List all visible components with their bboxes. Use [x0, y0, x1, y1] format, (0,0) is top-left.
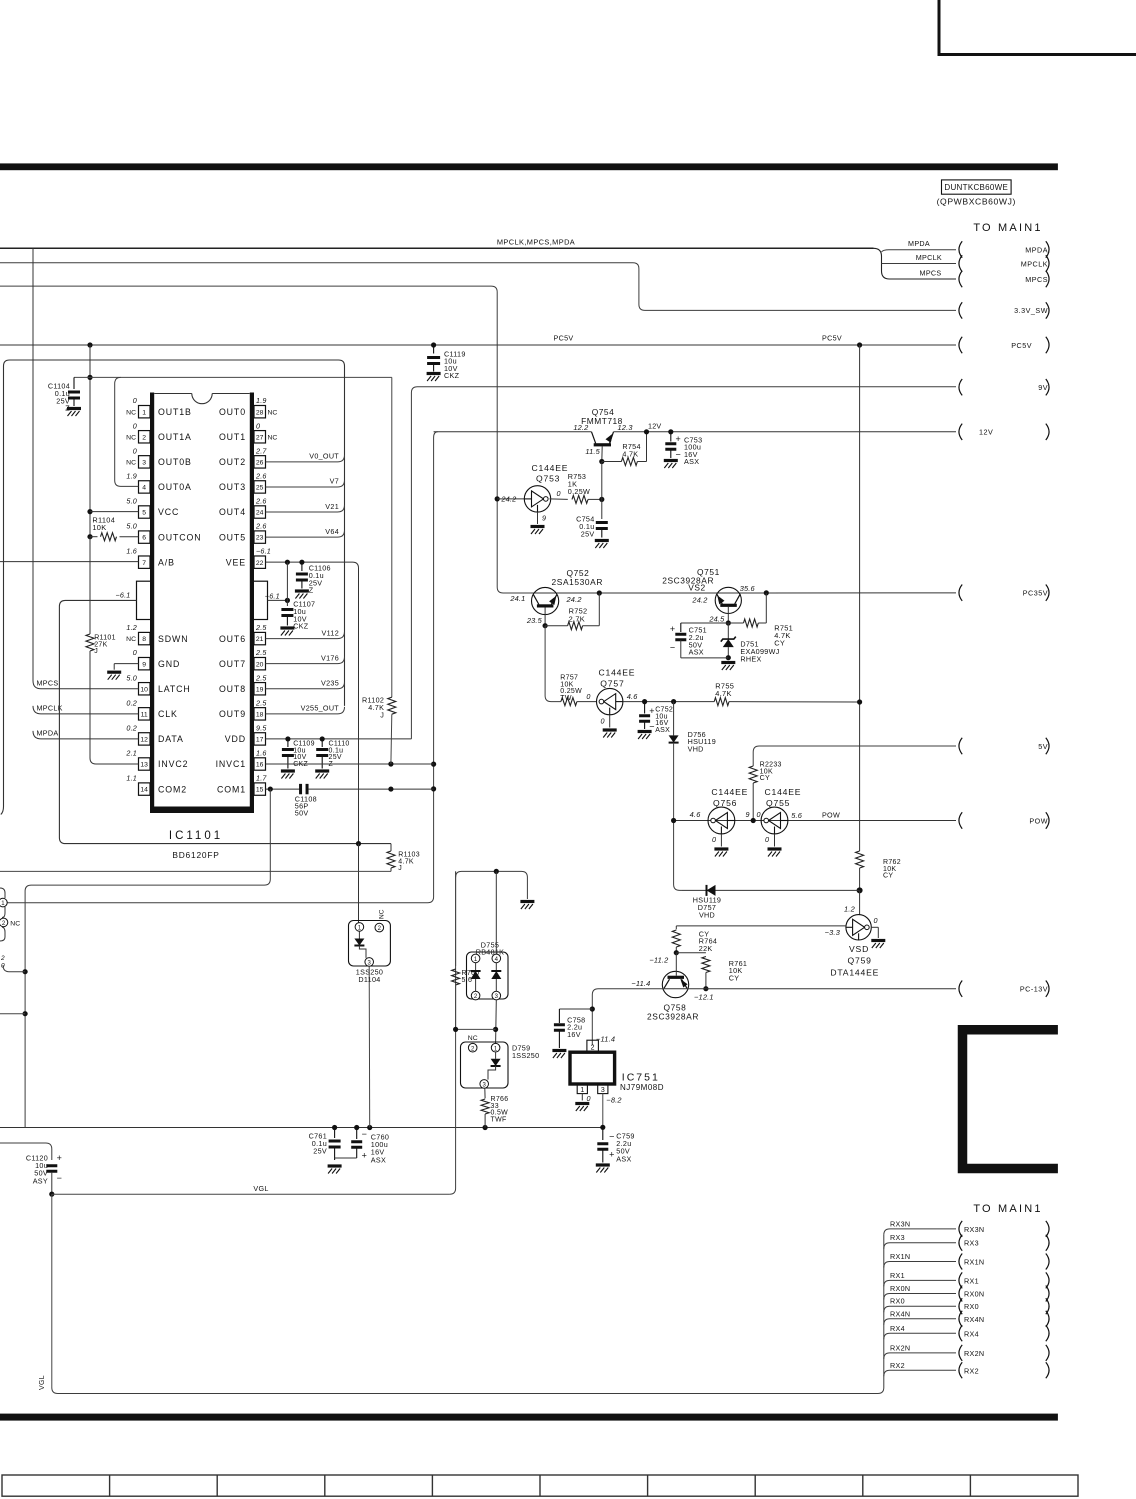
connector RX0 [959, 1298, 962, 1314]
junction C1104 top link [87, 375, 92, 380]
svg-text:RX2: RX2 [964, 1366, 979, 1375]
svg-text:OUTCON: OUTCON [158, 532, 202, 542]
svg-text:V235: V235 [321, 679, 339, 688]
svg-text:0.25W: 0.25W [568, 487, 590, 496]
frame corner box top-right [939, 0, 1136, 55]
label DUNTKCB60WE [942, 180, 1012, 194]
svg-text:IC1101: IC1101 [169, 830, 223, 842]
pin 22 VEE [254, 556, 266, 568]
svg-text:8: 8 [142, 636, 146, 643]
ground Q753 [531, 527, 545, 535]
svg-text:23: 23 [256, 535, 264, 542]
svg-text:2.7: 2.7 [255, 446, 267, 455]
svg-text:1: 1 [142, 409, 146, 416]
pin 6 OUTCON [139, 531, 151, 543]
svg-text:4.6: 4.6 [627, 692, 639, 701]
resistor R752 2.7K [598, 593, 600, 626]
svg-text:−: − [670, 643, 676, 653]
svg-text:GND: GND [158, 659, 180, 669]
svg-text:−6.1: −6.1 [116, 591, 131, 600]
svg-text:Q756: Q756 [713, 798, 737, 808]
capacitor C1120 10u [0, 1143, 52, 1160]
svg-text:6: 6 [142, 535, 146, 542]
pin 7 A/B [139, 556, 151, 568]
svg-text:VEE: VEE [226, 557, 246, 567]
svg-text:9: 9 [142, 661, 146, 668]
svg-text:0: 0 [712, 835, 716, 844]
wire V112 [266, 632, 345, 639]
svg-text:+: + [362, 1151, 368, 1161]
connector MPDA [959, 241, 962, 257]
svg-text:NC: NC [126, 434, 136, 441]
junction R752 left [543, 623, 548, 628]
pin 24 OUT4 [254, 506, 266, 518]
svg-text:OUT0B: OUT0B [158, 457, 192, 467]
svg-text:MPDA: MPDA [1025, 245, 1048, 254]
svg-text:CY: CY [760, 775, 770, 782]
resistor R753 1K [550, 498, 568, 501]
svg-text:INVC2: INVC2 [158, 759, 188, 769]
junction C758 node [590, 1006, 595, 1011]
svg-text:4: 4 [142, 485, 146, 492]
transistor Q757 C144EE [597, 688, 623, 714]
wire PC5V rail [0, 344, 956, 346]
svg-text:SDWN: SDWN [158, 634, 188, 644]
svg-text:2.5: 2.5 [255, 648, 267, 657]
junction VEE C1107 column [285, 560, 290, 565]
connector RX1 [959, 1272, 962, 1288]
svg-text:Q757: Q757 [600, 679, 624, 689]
svg-text:3.3V_SW: 3.3V_SW [1014, 306, 1048, 315]
resistor R754 4.7K [602, 461, 622, 463]
svg-text:VGL: VGL [253, 1184, 268, 1193]
svg-text:RX1N: RX1N [890, 1252, 910, 1261]
svg-text:RX0N: RX0N [890, 1284, 910, 1293]
junction R754 node [599, 459, 604, 464]
transistor Q753 C144EE [524, 486, 550, 512]
svg-text:VS2: VS2 [688, 583, 706, 593]
svg-text:OUT5: OUT5 [219, 532, 246, 542]
wire VEE pin22 net [266, 562, 359, 922]
connector RX3 [959, 1235, 962, 1251]
pin 14 COM2 [139, 783, 151, 795]
thick separator bar top [0, 163, 1058, 170]
wire COM1 pin15 net [266, 788, 300, 790]
svg-text:MPCS: MPCS [37, 678, 59, 687]
svg-text:(QPWBXCB60WJ): (QPWBXCB60WJ) [937, 197, 1016, 207]
svg-text:0.2: 0.2 [126, 698, 137, 707]
pin 12 DATA [139, 733, 151, 745]
svg-text:V64: V64 [325, 527, 339, 536]
svg-text:24: 24 [256, 510, 264, 517]
svg-text:2: 2 [142, 434, 146, 441]
junction INVC1 on 12V vertical [431, 762, 436, 767]
svg-text:0: 0 [765, 835, 769, 844]
ground Q757 [603, 730, 617, 738]
wire IC751 pin3 down [602, 1094, 604, 1128]
svg-text:BD6120FP: BD6120FP [172, 850, 219, 860]
svg-text:PC35V: PC35V [1023, 589, 1048, 598]
svg-text:VDD: VDD [225, 734, 246, 744]
ground y868 link [520, 902, 534, 910]
svg-text:OUT4: OUT4 [219, 507, 246, 517]
connector PC-13V [959, 981, 962, 997]
svg-text:POW: POW [1029, 816, 1048, 825]
svg-text:RX0: RX0 [964, 1302, 979, 1311]
svg-text:OUT1: OUT1 [219, 432, 246, 442]
svg-text:V21: V21 [325, 502, 339, 511]
wire D755 to D759 [495, 871, 497, 954]
junction long line C759 [600, 1125, 605, 1130]
svg-text:TO MAIN1: TO MAIN1 [973, 222, 1042, 234]
svg-text:25V: 25V [581, 530, 595, 539]
junction C1109 [285, 736, 290, 741]
wire C1104/VCC vertical [89, 345, 91, 537]
junction D756 line POW [671, 818, 676, 823]
junction COM1 left [268, 786, 273, 791]
wire Q752 emitter to Q757 line [545, 626, 561, 702]
capacitor C760 100u [356, 1128, 358, 1140]
svg-text:4.7K: 4.7K [622, 449, 638, 458]
svg-text:TO MAIN1: TO MAIN1 [973, 1203, 1042, 1215]
svg-text:0: 0 [587, 1094, 591, 1103]
wire VCC pin5 [90, 511, 139, 513]
svg-text:1.9: 1.9 [256, 396, 267, 405]
svg-text:V7: V7 [330, 477, 339, 486]
svg-text:RX2N: RX2N [890, 1343, 910, 1352]
svg-text:15: 15 [256, 787, 264, 794]
svg-text:0: 0 [256, 421, 260, 430]
svg-text:V112: V112 [322, 628, 339, 637]
svg-text:24.1: 24.1 [509, 594, 525, 603]
svg-text:VSD: VSD [849, 944, 869, 954]
svg-text:50V: 50V [295, 809, 309, 818]
svg-text:21: 21 [256, 636, 264, 643]
svg-text:16V: 16V [567, 1030, 581, 1039]
svg-text:VCC: VCC [158, 507, 179, 517]
ground Q755 [768, 849, 782, 857]
svg-text:ASY: ASY [33, 1176, 48, 1185]
connector MPCS [959, 271, 962, 287]
transistor Q758 2SC3928AR [662, 971, 688, 997]
wire VEE vertical lower [358, 844, 360, 923]
svg-text:11: 11 [141, 711, 148, 718]
svg-text:−: − [609, 1132, 615, 1142]
svg-text:5.0: 5.0 [126, 673, 137, 682]
svg-text:MPDA: MPDA [908, 239, 930, 248]
svg-text:2.7K: 2.7K [569, 615, 585, 624]
svg-text:−8.2: −8.2 [606, 1096, 621, 1105]
junction PC5V C1104 column [87, 342, 92, 347]
svg-text:COM2: COM2 [158, 784, 187, 794]
svg-text:RX0: RX0 [890, 1297, 905, 1306]
svg-text:1.2: 1.2 [126, 623, 137, 632]
svg-text:RX4: RX4 [964, 1329, 979, 1338]
svg-text:J: J [380, 710, 384, 719]
svg-text:0: 0 [586, 692, 590, 701]
resistor R755 4.7K [714, 698, 729, 706]
thick separator bar bottom [0, 1414, 1058, 1421]
resistor R2233 10K [749, 766, 757, 783]
junction D755 top [494, 869, 499, 874]
svg-text:MPCLK: MPCLK [37, 703, 63, 712]
svg-text:1.2: 1.2 [844, 905, 855, 914]
svg-text:2SA1530AR: 2SA1530AR [552, 577, 604, 587]
svg-text:24.2: 24.2 [691, 595, 707, 604]
svg-text:10K: 10K [92, 523, 106, 532]
pin 11 CLK [139, 708, 151, 720]
wire Q757 output [623, 701, 714, 703]
svg-text:−: − [57, 1173, 63, 1183]
wire Q752 base net [0, 286, 531, 593]
capacitor C758 2.2u [559, 1008, 592, 1010]
svg-text:24.5: 24.5 [708, 614, 725, 623]
connector 3.3V_SW [959, 302, 962, 318]
svg-text:LATCH: LATCH [158, 684, 191, 694]
svg-text:OUT1A: OUT1A [158, 432, 192, 442]
svg-text:0: 0 [1, 963, 5, 970]
svg-text:9: 9 [746, 810, 750, 819]
svg-text:+: + [609, 1150, 615, 1160]
wire A/B pin7 [0, 561, 139, 563]
pin 1 OUT1B [139, 406, 151, 418]
svg-text:C144EE: C144EE [765, 787, 802, 797]
svg-text:2SC3928AR: 2SC3928AR [647, 1012, 699, 1022]
svg-text:24.2: 24.2 [500, 495, 516, 504]
svg-text:1.1: 1.1 [126, 774, 137, 783]
wire RX1N [884, 1262, 956, 1268]
svg-text:J: J [398, 865, 402, 872]
wire RX2N [884, 1353, 956, 1359]
pin 16 INVC1 [254, 758, 266, 770]
junction D759 top [493, 1027, 498, 1032]
wire rail to Q759 [859, 890, 861, 914]
junction long line C761 [332, 1125, 337, 1130]
svg-text:24.2: 24.2 [566, 595, 582, 604]
svg-text:13: 13 [140, 762, 148, 769]
svg-text:NC: NC [268, 409, 278, 416]
svg-text:12: 12 [140, 737, 148, 744]
svg-text:1SS250: 1SS250 [512, 1051, 539, 1060]
junction OUTCON [87, 534, 92, 539]
wire R760 D759 link [456, 1028, 496, 1030]
svg-text:Z: Z [65, 404, 70, 413]
transistor Q759 VSD DTA144EE [846, 915, 871, 940]
wire 5V net [753, 746, 956, 766]
svg-text:OUT1B: OUT1B [158, 407, 192, 417]
pin 28 OUT0 [254, 406, 266, 418]
svg-text:NC: NC [126, 409, 136, 416]
svg-text:28: 28 [256, 409, 264, 416]
junction Q758 base node [674, 950, 679, 955]
svg-text:23.5: 23.5 [526, 616, 543, 625]
svg-text:+: + [670, 624, 676, 634]
junction Q751 emitter node [726, 620, 731, 625]
svg-text:+: + [649, 706, 655, 716]
frame thick box right [963, 1030, 1058, 1169]
wire RX2 [884, 1370, 956, 1376]
capacitor C1107 10u [281, 610, 293, 616]
wire pin4 OUT0A net [115, 377, 139, 486]
pin 23 OUT5 [254, 531, 266, 543]
resistor R1102 4.7K [391, 377, 393, 697]
svg-text:5.0: 5.0 [126, 522, 137, 531]
svg-text:10: 10 [140, 686, 148, 693]
svg-text:RX3: RX3 [964, 1239, 979, 1248]
capacitor C1119 [433, 345, 435, 354]
svg-text:RX2N: RX2N [964, 1349, 984, 1358]
junction rail R755 [857, 699, 862, 704]
wire MPDA branch [882, 250, 957, 252]
pin 18 OUT9 [254, 708, 266, 720]
capacitor C1106 0.1u [301, 562, 303, 571]
capacitor C752 10u [644, 702, 646, 714]
wire Q756 ground stem [720, 834, 722, 847]
svg-text:NJ79M08D: NJ79M08D [620, 1083, 664, 1092]
svg-text:OUT0A: OUT0A [158, 482, 192, 492]
pin 10 LATCH [139, 683, 151, 695]
svg-text:V0_OUT: V0_OUT [309, 452, 339, 461]
wire MPCLK,MPCS,MPDA bus [0, 247, 874, 249]
ground Q756 [714, 849, 728, 857]
svg-text:PC-13V: PC-13V [1020, 985, 1048, 994]
diode D751 EXA099WJ zener [727, 623, 729, 639]
wire Q751 emitter [727, 607, 729, 623]
wire long horizontal net [0, 1127, 603, 1129]
svg-text:TW: TW [560, 695, 572, 702]
junction R1102 INVC1 [388, 761, 393, 766]
wire Q759 output to ground [871, 926, 878, 928]
pin 15 COM1 [254, 783, 266, 795]
wire VGL vertical left [51, 1194, 53, 1387]
svg-text:ASX: ASX [684, 457, 699, 466]
svg-text:J: J [94, 648, 98, 655]
resistor R761 10K [676, 952, 706, 954]
svg-text:−: − [675, 449, 681, 459]
svg-text:TWF: TWF [491, 1116, 507, 1123]
svg-text:PC5V: PC5V [1011, 341, 1032, 350]
svg-text:+: + [675, 434, 681, 444]
svg-text:0: 0 [133, 446, 137, 455]
pin 27 OUT1 [254, 431, 266, 443]
wire RX3 [884, 1243, 956, 1249]
svg-text:C144EE: C144EE [599, 668, 636, 678]
svg-text:3: 3 [601, 1087, 605, 1094]
wire Q755 ground stem [774, 834, 776, 847]
svg-text:PC5V: PC5V [554, 334, 574, 343]
wire D756 to D757 line [673, 743, 675, 821]
resistor R760 5.6K [455, 871, 457, 966]
capacitor C1108 56P [301, 784, 308, 794]
svg-text:2.6: 2.6 [255, 522, 267, 531]
svg-text:0: 0 [874, 916, 878, 925]
svg-text:22K: 22K [699, 944, 713, 953]
pin 21 OUT6 [254, 632, 266, 644]
wire 12V rail left vertical [0, 432, 438, 903]
wire left pad net [59, 600, 391, 843]
wire V64 [266, 530, 345, 537]
junction R760 link [453, 1027, 458, 1032]
svg-text:5.6: 5.6 [791, 811, 803, 820]
wire Q754 emitter stem [601, 446, 603, 461]
svg-text:9: 9 [542, 514, 546, 523]
svg-text:1.9: 1.9 [126, 471, 137, 480]
left cut package pin 1 [0, 898, 7, 907]
wire INVC1 pin16 net [266, 763, 434, 765]
svg-text:MPCS: MPCS [1025, 275, 1048, 284]
junction long line C760 [354, 1125, 359, 1130]
svg-text:12.2: 12.2 [573, 423, 588, 432]
svg-text:0.2: 0.2 [126, 723, 137, 732]
junction C1110 [320, 736, 325, 741]
connector 12V [959, 424, 962, 440]
svg-text:RX4N: RX4N [890, 1309, 910, 1318]
svg-text:ASX: ASX [616, 1154, 631, 1163]
junction R752 right [597, 590, 602, 595]
svg-text:RX3N: RX3N [890, 1219, 910, 1228]
transistor Q752 2SA1530AR [532, 587, 559, 614]
svg-text:Q755: Q755 [766, 798, 790, 808]
svg-text:4.6: 4.6 [690, 810, 702, 819]
ground IC751 pin1 [575, 1104, 589, 1112]
svg-text:−: − [362, 1129, 368, 1139]
svg-text:RX2: RX2 [890, 1361, 905, 1370]
svg-text:RHEX: RHEX [740, 655, 761, 664]
svg-text:0: 0 [133, 396, 137, 405]
transistor Q755 C144EE [761, 807, 788, 834]
pin 19 OUT8 [254, 683, 266, 695]
pin 4 OUT0A [139, 481, 151, 493]
wire right pad link [268, 599, 288, 601]
svg-text:9V: 9V [1038, 383, 1048, 392]
pin 2 OUT1A [139, 431, 151, 443]
svg-text:NC: NC [268, 434, 278, 441]
svg-text:VHD: VHD [699, 910, 715, 919]
svg-text:2.6: 2.6 [255, 471, 267, 480]
resistor R766 33 [484, 1088, 486, 1098]
junction left link 1013 [23, 1011, 28, 1016]
capacitor C754 0.1u [601, 462, 603, 520]
svg-text:11.5: 11.5 [585, 447, 600, 456]
wire Q759 input line [676, 925, 846, 927]
junction rail D757 [857, 887, 863, 893]
svg-text:7: 7 [142, 560, 146, 567]
svg-text:OUT8: OUT8 [219, 684, 246, 694]
svg-text:NC: NC [126, 636, 136, 643]
svg-text:12V: 12V [979, 428, 993, 437]
wire RX4N [884, 1319, 956, 1325]
diode D1104 1SS250 [349, 921, 391, 967]
junction PC5V C1119 [431, 342, 436, 347]
junction long line R766 [483, 1125, 488, 1130]
wire POW line [674, 820, 956, 822]
svg-text:INVC1: INVC1 [216, 759, 246, 769]
svg-text:C144EE: C144EE [711, 787, 748, 797]
junction PC5V right rail [857, 342, 862, 347]
wire y377 link line [74, 376, 392, 378]
svg-text:OUT0: OUT0 [219, 407, 246, 417]
wire V255_OUT [266, 707, 345, 714]
pin 26 OUT2 [254, 456, 266, 468]
transistor Q754 FMMT718 [594, 443, 611, 446]
svg-text:CLK: CLK [158, 709, 178, 719]
wire RX0N [884, 1294, 956, 1300]
wire left edge 1013 link [0, 1013, 25, 1015]
svg-text:ASX: ASX [689, 648, 704, 657]
pad left -6.1 [137, 581, 152, 619]
svg-text:POW: POW [822, 810, 840, 819]
svg-text:0: 0 [757, 810, 761, 819]
